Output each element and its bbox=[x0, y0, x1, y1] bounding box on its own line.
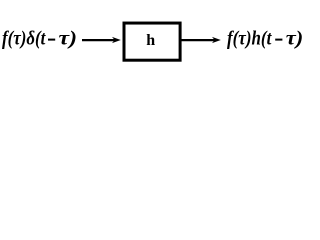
system block box bbox=[124, 23, 180, 60]
output arrowhead bbox=[212, 37, 221, 43]
input arrowhead bbox=[112, 37, 121, 43]
input label minus bbox=[48, 39, 55, 41]
svg-text:h: h bbox=[146, 32, 155, 49]
svg-text:f(τ)δ(t: f(τ)δ(t bbox=[2, 27, 47, 49]
svg-text:f(τ)h(t: f(τ)h(t bbox=[227, 27, 273, 49]
output label minus bbox=[275, 39, 282, 41]
svg-text:τ): τ) bbox=[59, 27, 78, 49]
input arrow wire bbox=[82, 39, 115, 41]
svg-text:τ): τ) bbox=[286, 27, 304, 49]
output arrow wire bbox=[181, 39, 215, 41]
